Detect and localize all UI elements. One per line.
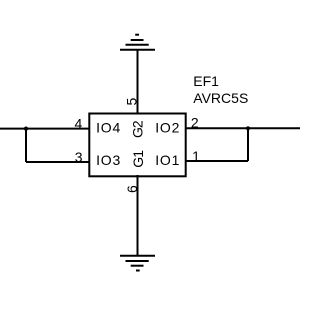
svg-text:EF1: EF1 [193,73,219,89]
svg-text:IO4: IO4 [96,120,121,136]
junction right [246,126,250,130]
wire pin 5 to top ground [137,50,139,114]
svg-text:IO2: IO2 [155,120,180,136]
svg-text:G2: G2 [129,120,145,138]
wire left net to pin 4 [0,128,90,130]
ground GND bottom (earth symbol) [120,256,155,271]
svg-text:G1: G1 [130,150,146,168]
wire pin 1 [185,160,248,162]
ground GND top (earth symbol, pointing up) [120,35,155,50]
svg-text:IO3: IO3 [96,152,121,168]
svg-text:AVRC5S: AVRC5S [193,90,248,106]
wire to pin 3 [26,161,90,163]
svg-text:5: 5 [124,98,140,106]
filter EF1 body [89,114,185,177]
svg-text:IO1: IO1 [155,152,180,168]
wire pin 2 to right edge [185,127,300,129]
wire right junction down [247,128,249,161]
wire left junction down [25,129,27,162]
junction left [24,127,28,131]
wire pin 6 to bottom ground [137,175,139,256]
